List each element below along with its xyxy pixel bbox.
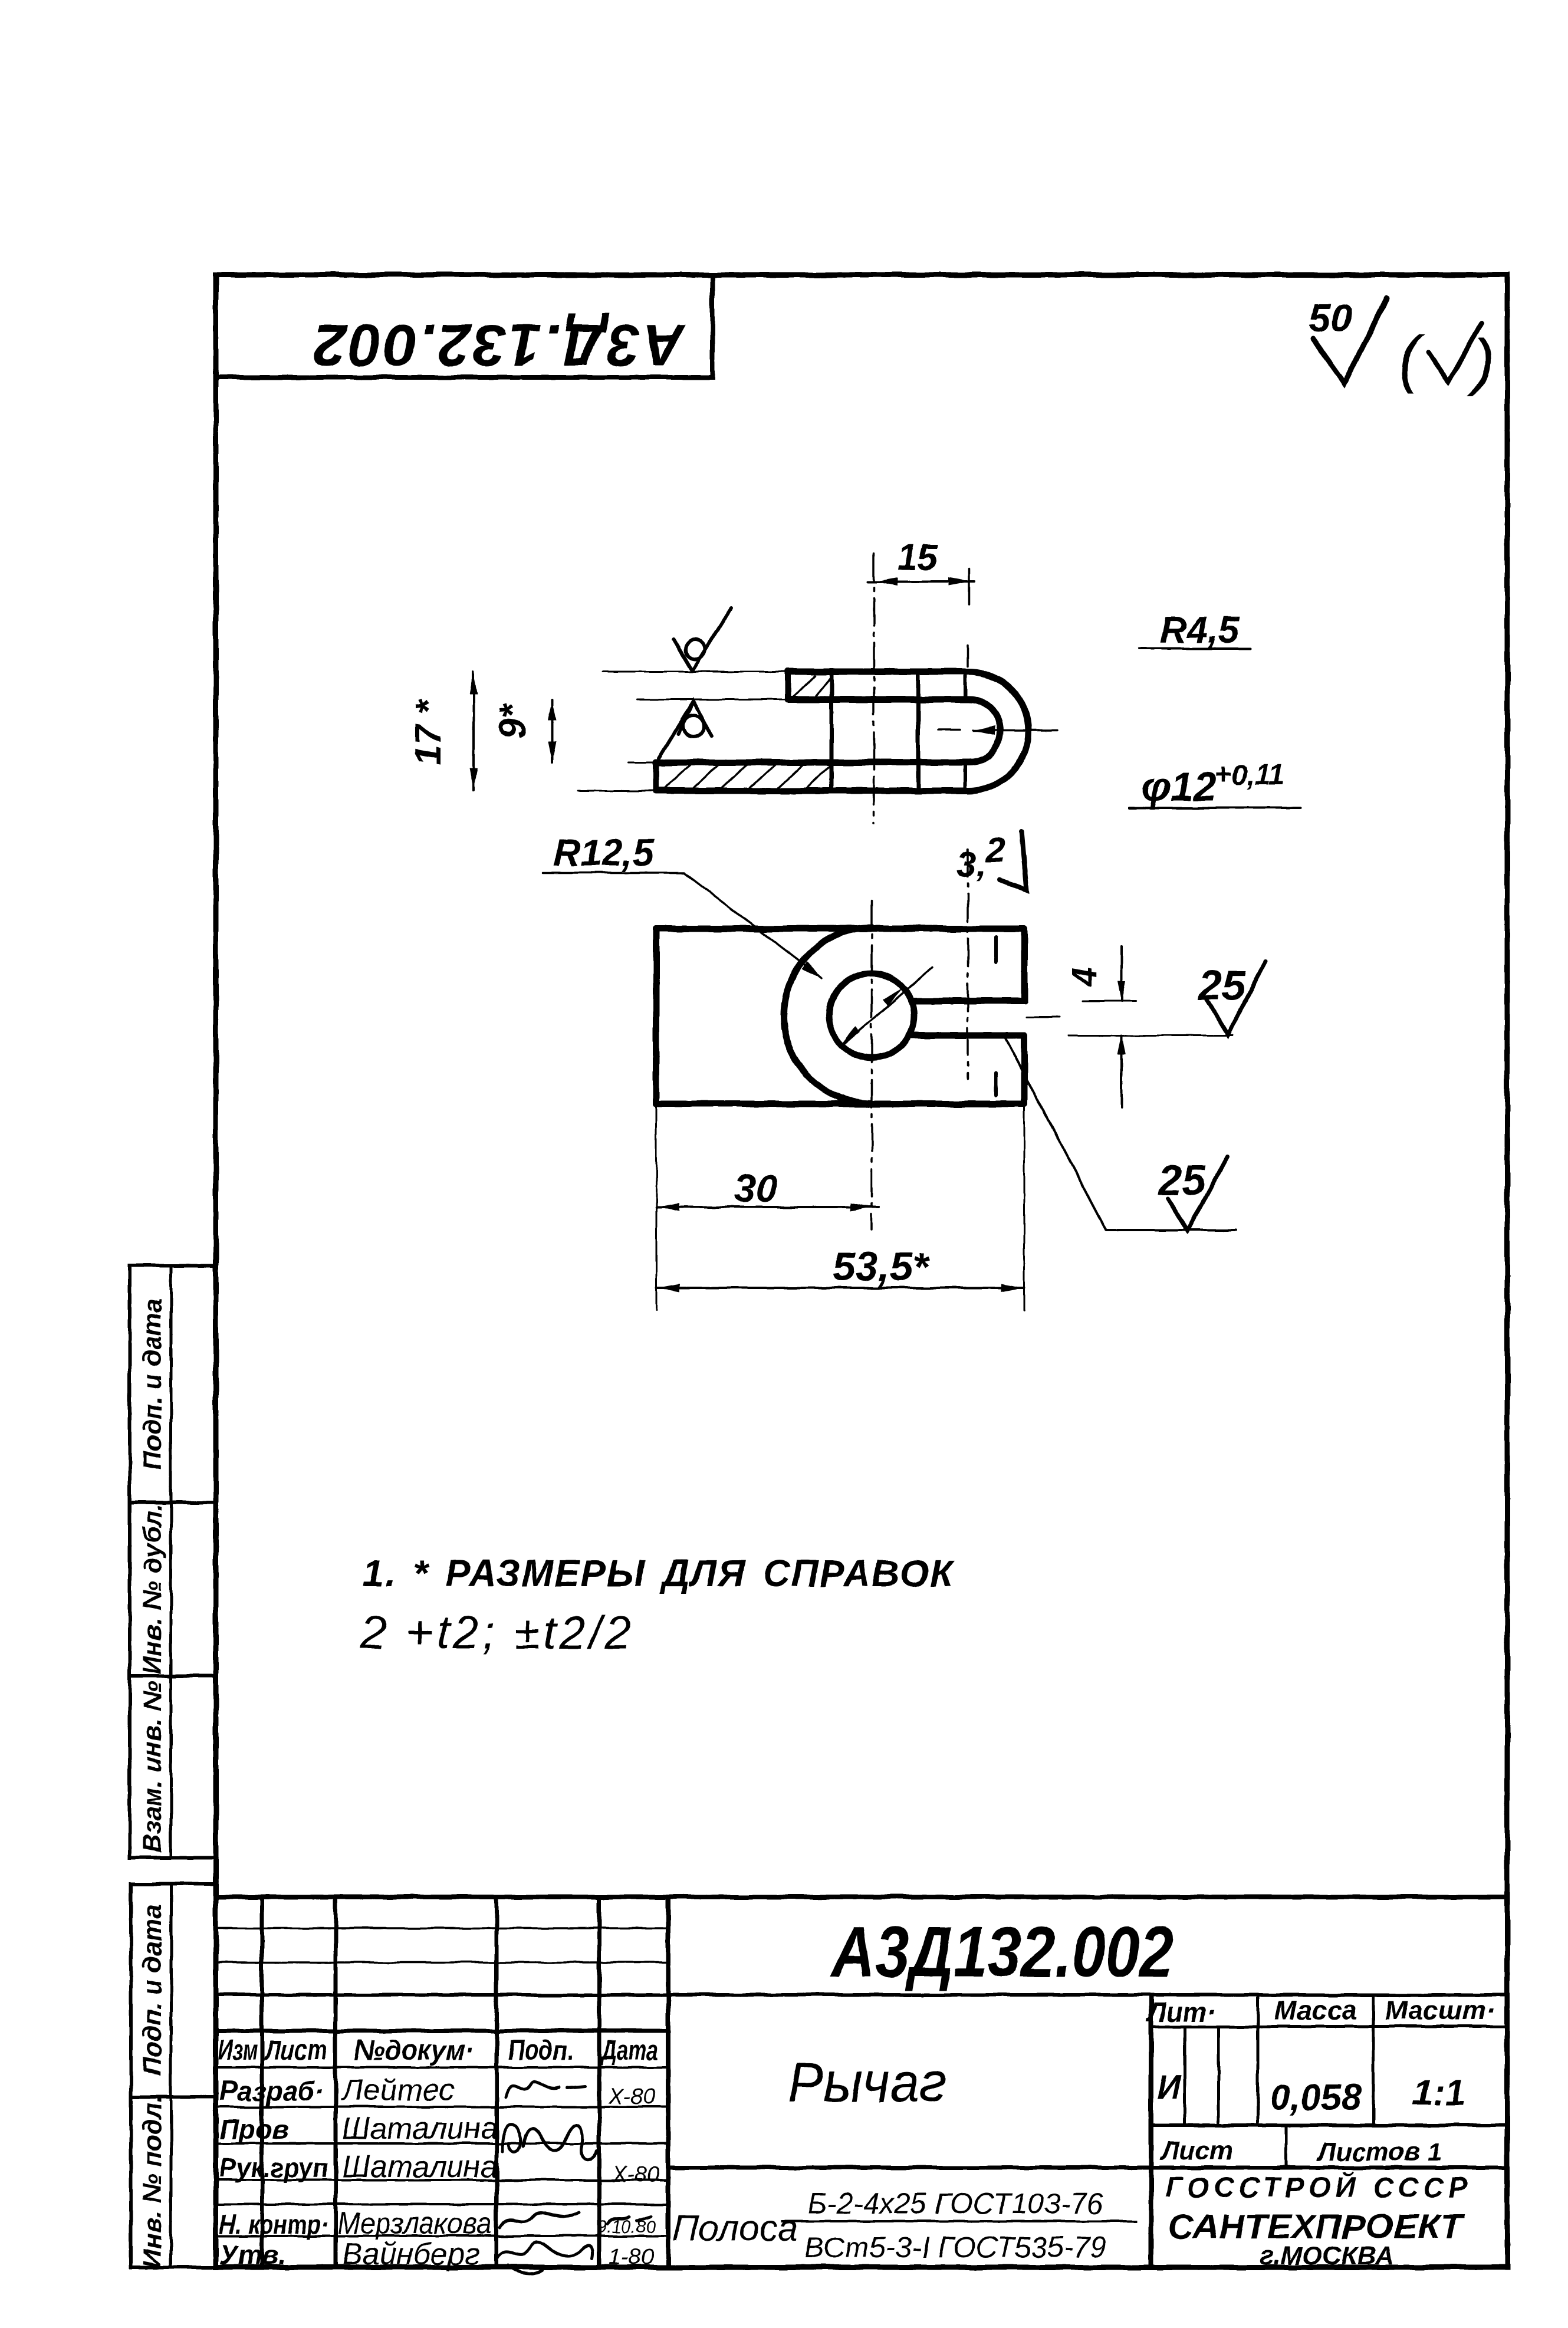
svg-text:9.10.80: 9.10.80 <box>597 2217 656 2237</box>
svg-text:R4,5: R4,5 <box>1159 609 1240 651</box>
svg-text:φ12: φ12 <box>1142 764 1217 810</box>
svg-text:Подп.: Подп. <box>508 2035 574 2066</box>
svg-text:1-80: 1-80 <box>609 2245 653 2270</box>
svg-text:1. * РАЗМЕРЫ ДЛЯ СПРАВОК: 1. * РАЗМЕРЫ ДЛЯ СПРАВОК <box>363 1552 955 1594</box>
svg-text:ГОССТРОЙ СССР: ГОССТРОЙ СССР <box>1165 2171 1472 2204</box>
svg-text:Мерзлакова: Мерзлакова <box>337 2207 492 2241</box>
svg-text:А3Д.132.002: А3Д.132.002 <box>311 312 686 378</box>
svg-text:53,5*: 53,5* <box>832 1244 930 1290</box>
svg-text:№докум·: №докум· <box>354 2035 475 2066</box>
svg-text:25: 25 <box>1197 962 1246 1010</box>
svg-text:25: 25 <box>1157 1157 1206 1204</box>
svg-text:3,: 3, <box>956 844 986 884</box>
svg-text:Взам. инв. №: Взам. инв. № <box>138 1682 167 1853</box>
svg-text:Х-80: Х-80 <box>612 2162 659 2187</box>
svg-text:Х-80: Х-80 <box>608 2084 656 2109</box>
svg-text:Лейтес: Лейтес <box>340 2073 455 2107</box>
svg-text:Лит·: Лит· <box>1146 1997 1216 2027</box>
svg-text:Масса: Масса <box>1274 1995 1357 2026</box>
svg-text:Б-2-4х25 ГОСТ103-76: Б-2-4х25 ГОСТ103-76 <box>807 2187 1103 2220</box>
svg-text:Шаталина: Шаталина <box>342 2150 498 2184</box>
svg-text:R12,5: R12,5 <box>553 831 655 874</box>
svg-text:50: 50 <box>1309 296 1352 340</box>
svg-text:Изм: Изм <box>218 2035 257 2066</box>
svg-text:Рук.груп: Рук.груп <box>219 2152 328 2183</box>
svg-text:ВСт5-3-I ГОСТ535-79: ВСт5-3-I ГОСТ535-79 <box>804 2231 1106 2264</box>
svg-text:Лист: Лист <box>1160 2136 1233 2165</box>
svg-text:Разраб·: Разраб· <box>219 2076 324 2106</box>
svg-text:Н. контр·: Н. контр· <box>219 2209 328 2240</box>
svg-text:САНТЕХПРОЕКТ: САНТЕХПРОЕКТ <box>1168 2208 1465 2246</box>
svg-text:Инв. № дубл.: Инв. № дубл. <box>138 1504 167 1675</box>
svg-text:Листов 1: Листов 1 <box>1316 2138 1442 2166</box>
svg-text:2: 2 <box>985 830 1005 870</box>
svg-text:Инв. № подл.: Инв. № подл. <box>138 2096 167 2268</box>
svg-text:2 +t2; ±t2/2: 2 +t2; ±t2/2 <box>360 1606 635 1658</box>
svg-text:Лист: Лист <box>264 2035 327 2066</box>
svg-text:15: 15 <box>898 537 939 578</box>
svg-text:+0,11: +0,11 <box>1215 759 1284 791</box>
svg-text:30: 30 <box>734 1166 778 1210</box>
svg-text:Полоса: Полоса <box>672 2208 798 2249</box>
svg-text:Утв.: Утв. <box>219 2240 286 2270</box>
svg-text:Рычаг: Рычаг <box>788 2051 946 2114</box>
svg-text:И: И <box>1157 2068 1182 2105</box>
svg-text:Подп. и дата: Подп. и дата <box>138 1298 167 1469</box>
svg-text:0,058: 0,058 <box>1270 2077 1362 2118</box>
svg-text:г.МОСКВА: г.МОСКВА <box>1260 2241 1394 2270</box>
svg-text:Масшт·: Масшт· <box>1385 1995 1495 2026</box>
svg-text:9*: 9* <box>492 703 533 739</box>
svg-text:Шаталина: Шаталина <box>342 2112 498 2146</box>
svg-text:Дата: Дата <box>600 2035 658 2066</box>
svg-text:17 *: 17 * <box>408 699 449 765</box>
svg-text:1:1: 1:1 <box>1412 2073 1465 2113</box>
svg-text:А3Д132.002: А3Д132.002 <box>830 1912 1173 1992</box>
svg-text:Подп. и дата: Подп. и дата <box>138 1904 167 2076</box>
svg-text:4: 4 <box>1065 968 1103 987</box>
svg-text:Пров: Пров <box>219 2114 288 2145</box>
svg-text:Вайнберг: Вайнберг <box>342 2237 480 2271</box>
